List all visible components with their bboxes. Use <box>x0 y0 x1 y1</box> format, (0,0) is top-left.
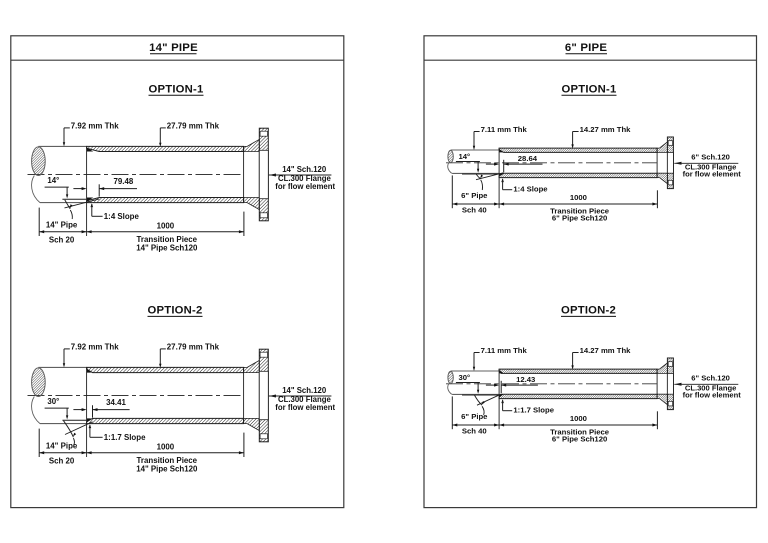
svg-text:1000: 1000 <box>157 443 175 452</box>
svg-text:6" Sch.120: 6" Sch.120 <box>691 373 730 382</box>
svg-text:OPTION-1: OPTION-1 <box>562 84 617 96</box>
svg-text:27.79 mm Thk: 27.79 mm Thk <box>167 343 220 352</box>
flange hub (bottom, hatched) <box>657 394 667 405</box>
svg-text:6" Pipe: 6" Pipe <box>461 191 488 200</box>
flange weld line <box>656 369 658 399</box>
leader 7.92 mm Thk <box>63 128 65 144</box>
flange bolt holes <box>260 352 267 357</box>
transition piece bottom wall (hatched) <box>87 418 244 423</box>
leader 7.92 mm Thk <box>63 349 65 365</box>
dimension 6" Pipe Sch 40 <box>451 175 453 208</box>
dimension 1000 transition piece <box>243 433 245 457</box>
right panel frame <box>424 36 757 508</box>
svg-text:30°: 30° <box>458 373 470 382</box>
svg-text:14.27 mm Thk: 14.27 mm Thk <box>580 125 632 134</box>
svg-text:1000: 1000 <box>570 193 587 202</box>
transition piece top wall (hatched) <box>87 146 244 151</box>
leader 27.79 mm Thk <box>159 349 161 365</box>
svg-text:14" Pipe Sch120: 14" Pipe Sch120 <box>136 464 198 473</box>
pipe break symbol <box>32 368 46 397</box>
transition piece top wall (hatched) <box>87 367 244 372</box>
flange weld line <box>656 148 658 178</box>
svg-text:for flow element: for flow element <box>275 182 335 191</box>
dimension 1000 transition piece <box>656 190 658 208</box>
dimension 34.41 <box>73 409 82 411</box>
flange weld line <box>243 146 245 202</box>
svg-text:Sch 40: Sch 40 <box>462 427 487 436</box>
svg-text:14" Pipe Sch120: 14" Pipe Sch120 <box>136 243 198 252</box>
svg-text:Sch 20: Sch 20 <box>49 236 75 245</box>
svg-text:6" Pipe Sch120: 6" Pipe Sch120 <box>552 434 607 443</box>
pipe break symbol <box>32 147 46 176</box>
leader 27.79 mm Thk <box>159 128 161 144</box>
dimension 1000 transition piece <box>656 411 658 429</box>
leader 7.11 mm Thk <box>473 132 475 148</box>
left panel frame <box>11 36 344 508</box>
pipe break symbol <box>448 150 453 162</box>
flange hub (top, hatched) <box>244 139 260 151</box>
flange ring <box>259 349 268 442</box>
flange ring <box>667 137 673 189</box>
svg-text:28.64: 28.64 <box>518 154 538 163</box>
6" Pipe upstream pipe outline <box>451 149 500 151</box>
wire centerline <box>28 395 244 397</box>
leader 1:1.7 Slope <box>501 399 504 403</box>
flange annotation 14" Sch.120 <box>269 395 276 398</box>
junction weld line <box>498 148 500 208</box>
svg-text:1000: 1000 <box>570 414 587 423</box>
flange annotation 14" Sch.120 <box>269 174 276 177</box>
6" Pipe upstream pipe outline <box>451 370 500 372</box>
dimension 14" Pipe Sch 20 <box>38 208 40 236</box>
junction weld line <box>86 146 88 236</box>
dimension 28.64 <box>486 163 495 165</box>
flange bolt holes <box>260 131 267 136</box>
leader 1:4 Slope <box>91 203 94 207</box>
svg-text:27.79 mm Thk: 27.79 mm Thk <box>167 122 220 131</box>
svg-text:6" Pipe: 6" Pipe <box>461 412 488 421</box>
svg-text:1:4 Slope: 1:4 Slope <box>513 184 548 193</box>
svg-text:14" PIPE: 14" PIPE <box>149 42 198 54</box>
svg-text:OPTION-2: OPTION-2 <box>561 305 616 317</box>
svg-text:OPTION-2: OPTION-2 <box>148 305 203 317</box>
dimension 12.43 <box>486 384 495 386</box>
svg-text:30°: 30° <box>47 397 59 406</box>
leader 1:4 Slope <box>501 178 504 182</box>
svg-text:7.11 mm Thk: 7.11 mm Thk <box>481 125 528 134</box>
svg-text:79.48: 79.48 <box>114 177 134 186</box>
flange hub (bottom, hatched) <box>244 418 260 430</box>
dimension 1000 transition piece <box>243 212 245 236</box>
transition piece top wall (hatched) <box>499 148 657 152</box>
flange hub (top, hatched) <box>244 360 260 372</box>
svg-text:14°: 14° <box>47 176 59 185</box>
flange hub (top, hatched) <box>657 363 667 374</box>
flange annotation 6" Sch.120 <box>674 383 681 386</box>
svg-text:Sch 20: Sch 20 <box>49 457 75 466</box>
flange hub (bottom, hatched) <box>244 198 260 210</box>
transition piece top wall (hatched) <box>499 369 657 373</box>
dimension 14" Pipe Sch 20 <box>38 429 40 457</box>
svg-text:for flow element: for flow element <box>683 391 742 400</box>
svg-text:14" Sch.120: 14" Sch.120 <box>282 165 327 174</box>
dimension 79.48 <box>73 188 82 190</box>
svg-text:7.92 mm Thk: 7.92 mm Thk <box>71 122 119 131</box>
svg-text:34.41: 34.41 <box>106 398 126 407</box>
svg-text:6" Pipe Sch120: 6" Pipe Sch120 <box>552 213 607 222</box>
wire centerline <box>28 174 244 176</box>
svg-text:1:4 Slope: 1:4 Slope <box>104 212 140 221</box>
flange annotation 6" Sch.120 <box>674 162 681 165</box>
leader 1:1.7 Slope <box>89 424 92 428</box>
svg-text:14" Sch.120: 14" Sch.120 <box>282 386 327 395</box>
svg-text:1:1.7 Slope: 1:1.7 Slope <box>104 433 146 442</box>
flange ring <box>667 358 673 410</box>
svg-text:7.92 mm Thk: 7.92 mm Thk <box>71 343 119 352</box>
svg-text:14" Pipe: 14" Pipe <box>46 441 78 450</box>
junction weld line <box>498 369 500 429</box>
flange bolt holes <box>668 362 672 367</box>
svg-text:1:1.7 Slope: 1:1.7 Slope <box>513 405 554 414</box>
svg-text:14°: 14° <box>458 152 470 161</box>
transition piece bottom wall (hatched) <box>499 173 657 177</box>
flange hub (bottom, hatched) <box>657 173 667 184</box>
wire centerline <box>446 383 657 385</box>
wire centerline <box>446 162 657 164</box>
junction weld line <box>86 367 88 457</box>
leader 14.27 mm Thk <box>572 353 574 367</box>
svg-text:Sch 40: Sch 40 <box>462 206 487 215</box>
svg-text:1000: 1000 <box>157 222 175 231</box>
leader 14.27 mm Thk <box>572 132 574 146</box>
14" Pipe upstream pipe outline <box>38 366 86 368</box>
svg-text:6" Sch.120: 6" Sch.120 <box>691 152 730 161</box>
flange ring <box>259 128 268 221</box>
14" Pipe upstream pipe outline <box>38 145 86 147</box>
svg-text:14" Pipe: 14" Pipe <box>46 220 78 229</box>
transition piece bottom wall (hatched) <box>499 394 657 398</box>
svg-text:7.11 mm Thk: 7.11 mm Thk <box>481 346 528 355</box>
dimension 6" Pipe Sch 40 <box>451 396 453 429</box>
flange weld line <box>243 367 245 423</box>
leader 7.11 mm Thk <box>473 353 475 369</box>
flange hub (top, hatched) <box>657 142 667 153</box>
svg-text:6" PIPE: 6" PIPE <box>565 42 607 54</box>
svg-text:OPTION-1: OPTION-1 <box>149 84 204 96</box>
svg-text:for flow element: for flow element <box>275 403 335 412</box>
svg-text:14.27 mm Thk: 14.27 mm Thk <box>580 346 632 355</box>
flange bolt holes <box>668 141 672 146</box>
pipe break symbol <box>448 371 453 383</box>
svg-text:for flow element: for flow element <box>683 170 742 179</box>
svg-text:12.43: 12.43 <box>516 375 535 384</box>
transition piece bottom wall (hatched) <box>87 198 244 203</box>
